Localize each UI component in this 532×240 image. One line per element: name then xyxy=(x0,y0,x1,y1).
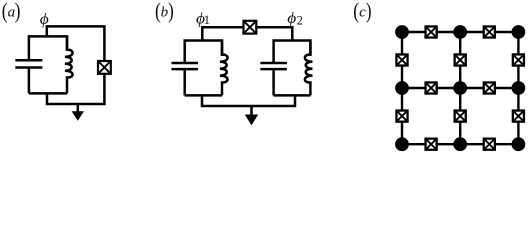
svg-text:b: b xyxy=(161,5,169,21)
svg-text:): ) xyxy=(366,0,372,23)
svg-text:ϕ: ϕ xyxy=(287,10,296,27)
svg-text:): ) xyxy=(15,0,21,23)
svg-text:c: c xyxy=(359,5,366,21)
svg-text:2: 2 xyxy=(297,13,303,27)
svg-text:): ) xyxy=(168,0,174,23)
svg-text:ϕ: ϕ xyxy=(40,11,49,28)
svg-text:a: a xyxy=(8,5,16,21)
svg-text:1: 1 xyxy=(204,13,210,27)
